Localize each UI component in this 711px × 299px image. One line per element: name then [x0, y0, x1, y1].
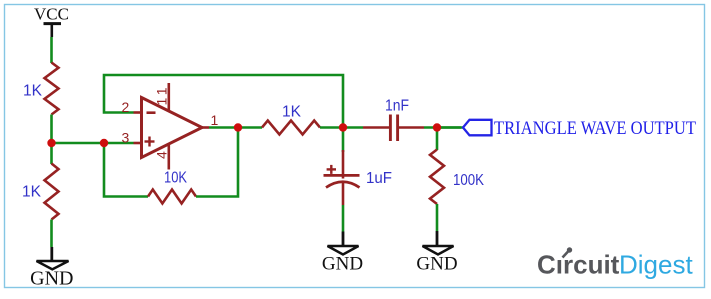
node C junction dot [339, 123, 347, 131]
wire node C down to 1uF [342, 128, 345, 153]
output terminal connector [463, 120, 492, 136]
capacitor 1nF [363, 115, 424, 142]
wire bottom feedback loop (node B to 10K) [104, 143, 148, 197]
op-amp pin 2 stub [134, 111, 142, 114]
svg-text:2: 2 [122, 99, 130, 115]
op-amp pin 1 stub (output) [202, 126, 209, 129]
resistor 1K (lower divider) [45, 164, 59, 220]
output node junction dot [234, 123, 242, 131]
wire 10K to output node [196, 128, 238, 197]
op-amp pin 3 stub [134, 142, 142, 145]
wire node A down to R2 [50, 143, 53, 164]
wire node D down to 100K [436, 128, 439, 151]
svg-text:1K: 1K [282, 104, 301, 121]
svg-text:3: 3 [122, 130, 130, 146]
node D junction dot [433, 123, 441, 131]
op-amp U1 body [142, 98, 203, 158]
capacitor 1uF (polarized) [324, 150, 360, 205]
wire node A to op-amp pin 3 [52, 142, 134, 145]
op-amp pin 11 stub (V+) [168, 83, 171, 112]
ground symbol (left) [30, 247, 73, 290]
svg-text:1K: 1K [22, 184, 41, 201]
ground symbol (middle) [322, 232, 363, 275]
svg-text:4: 4 [154, 151, 170, 159]
op-amp pin 4 stub (V-) [168, 144, 171, 170]
node A junction dot [47, 139, 55, 147]
wire node D to output terminal [437, 126, 463, 129]
node B junction dot (feedback tap) [100, 139, 108, 147]
wire 1K to node C [320, 126, 363, 129]
wire VCC to R1 [50, 37, 53, 63]
wire R2 to ground [50, 220, 53, 248]
wire 1nF to node D [424, 126, 461, 129]
svg-text:10K: 10K [164, 170, 187, 187]
svg-text:1nF: 1nF [385, 98, 409, 115]
resistor 100K [430, 150, 444, 205]
svg-text:1: 1 [211, 112, 219, 128]
ground symbol (right) [416, 231, 457, 275]
svg-text:100K: 100K [453, 172, 484, 189]
svg-text:GND: GND [30, 268, 73, 290]
wire R1 to node A [50, 115, 53, 144]
wire top feedback loop (pin 2 to output node) [104, 75, 343, 128]
resistor 10K (feedback) [148, 190, 196, 204]
svg-text:GND: GND [322, 254, 363, 275]
svg-text:1K: 1K [23, 83, 42, 100]
svg-text:Cırcuit: Cırcuit [537, 250, 620, 280]
resistor 1K (upper divider) [45, 63, 59, 115]
wire pin 1 to output node [209, 126, 262, 129]
svg-text:TRIANGLE WAVE OUTPUT: TRIANGLE WAVE OUTPUT [494, 118, 696, 139]
svg-text:GND: GND [416, 254, 457, 275]
minus sign (inverting input) [147, 111, 156, 114]
svg-text:11: 11 [154, 84, 170, 106]
resistor 1K (series output) [262, 121, 320, 135]
svg-text:VCC: VCC [34, 5, 69, 24]
power VCC symbol [34, 5, 69, 38]
wire 1uF to ground [342, 205, 345, 232]
svg-text:Digest: Digest [619, 250, 693, 280]
svg-text:1uF: 1uF [366, 170, 392, 187]
logo CircuitDigest [537, 247, 693, 279]
plus sign (non-inverting input) [145, 140, 155, 142]
wire 100K to ground [436, 204, 439, 231]
